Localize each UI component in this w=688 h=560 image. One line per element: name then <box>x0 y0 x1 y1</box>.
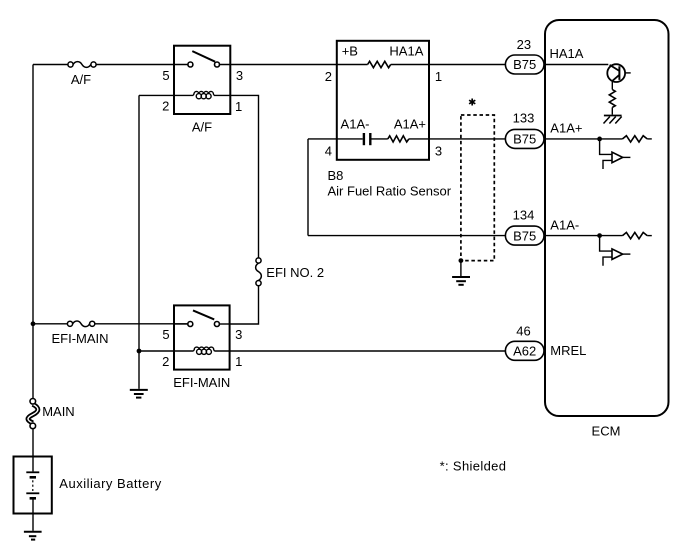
relay A/F switch contact circles <box>188 62 220 67</box>
ground shield <box>452 277 470 285</box>
svg-text:23: 23 <box>517 37 531 52</box>
wire top +B row: left bus to A/F fuse <box>33 64 68 66</box>
connector B75 pin 23 <box>505 55 544 74</box>
svg-text:2: 2 <box>162 354 169 369</box>
ECM box <box>545 20 669 416</box>
wire A/F relay pin 2 to vertical bus x139 <box>139 94 174 96</box>
relay A/F box <box>174 46 230 114</box>
svg-text:EFI-MAIN: EFI-MAIN <box>51 331 108 346</box>
svg-text:EFI NO. 2: EFI NO. 2 <box>266 265 324 280</box>
svg-text:HA1A: HA1A <box>389 44 423 59</box>
wire left bus to EFI-MAIN fuse <box>33 323 67 325</box>
wire HA1A row: relay pin 3 through sensor to heater resistor <box>219 64 367 66</box>
svg-text:133: 133 <box>513 110 535 125</box>
wire A1A- ECM resistor right lead <box>647 235 652 237</box>
op-amp A1A+ buffer <box>612 152 623 163</box>
wire A1A- vertical drop x308 <box>307 139 309 236</box>
transistor Q (ECM output driver) <box>607 64 630 89</box>
ground chassis (transistor emitter) <box>604 116 622 124</box>
wire HA1A row: sensor to B75(23) and into ECM to transistor <box>391 64 609 66</box>
op-amp A1A- buffer <box>612 249 623 260</box>
wire A1A+ ECM resistor right lead <box>647 138 652 140</box>
resistor heater inside sensor <box>368 61 391 67</box>
resistor A1A- inside ECM <box>623 232 648 238</box>
resistor sensing cell <box>388 136 409 142</box>
wire A1A+ op-amp lower input stub <box>603 160 612 169</box>
wire A1A+ op-amp upper input from node <box>600 139 612 155</box>
svg-text:134: 134 <box>513 208 535 223</box>
fuse EFI-MAIN <box>67 321 94 327</box>
svg-text:1: 1 <box>235 99 242 114</box>
shield dashed box <box>461 115 494 261</box>
fuse A/F <box>68 62 96 68</box>
sensor B8 box <box>337 41 429 160</box>
wire battery negative plate to ground <box>32 499 34 531</box>
svg-text:3: 3 <box>235 327 242 342</box>
svg-text:3: 3 <box>435 144 442 159</box>
connector B75 pin 134 <box>505 226 544 245</box>
svg-text:1: 1 <box>435 69 442 84</box>
svg-text:MREL: MREL <box>550 343 586 358</box>
svg-text:3: 3 <box>236 68 243 83</box>
battery plates <box>26 472 39 498</box>
wire A1A- op-amp lower input stub <box>603 257 612 266</box>
ground battery <box>24 532 42 540</box>
svg-text:5: 5 <box>162 68 169 83</box>
svg-text:4: 4 <box>325 144 332 159</box>
svg-text:B8: B8 <box>328 168 344 183</box>
svg-text:+B: +B <box>342 44 358 59</box>
battery Auxiliary Battery box <box>14 457 52 514</box>
wire A/F relay coil row right lead <box>214 94 230 96</box>
connector A62 pin 46 <box>505 341 544 360</box>
svg-text:2: 2 <box>325 69 332 84</box>
svg-text:A1A+: A1A+ <box>550 121 582 136</box>
wire vertical bus x139 from A/F relay pin2 down to ground <box>138 95 140 389</box>
wire shield drain to ground <box>460 261 462 277</box>
fusible link MAIN <box>28 399 38 429</box>
wire EFI-MAIN relay coil right lead / pin 1 to A62 MREL <box>214 350 544 352</box>
resistor A1A+ inside ECM <box>623 136 648 142</box>
svg-text:EFI-MAIN: EFI-MAIN <box>173 375 230 390</box>
svg-text:A/F: A/F <box>71 72 91 87</box>
svg-text:ECM: ECM <box>592 424 621 439</box>
svg-text:B75: B75 <box>513 57 536 72</box>
svg-text:5: 5 <box>162 327 169 342</box>
wire A1A+ row: sensor pin 3 to B75(133) into ECM <box>409 138 623 140</box>
svg-text:1: 1 <box>235 354 242 369</box>
svg-text:*: Shielded: *: Shielded <box>440 459 507 474</box>
relay EFI-MAIN coil <box>194 347 215 354</box>
wire EFI-MAIN relay switch left lead inside box <box>174 323 188 325</box>
svg-text:A1A+: A1A+ <box>394 117 426 132</box>
ground EFI-MAIN relay <box>130 390 148 398</box>
wire EFI-MAIN relay pin 2 from junction x139 <box>139 350 194 352</box>
svg-text:B75: B75 <box>513 228 536 243</box>
svg-text:Air Fuel Ratio Sensor: Air Fuel Ratio Sensor <box>328 183 452 198</box>
wire A1A+ row: sensor left edge to capacitor <box>337 138 363 140</box>
relay EFI-MAIN switch contact circles <box>188 322 220 327</box>
wire EFI-MAIN fuse to relay pin 5 <box>95 323 188 325</box>
node junction left bus / EFI-MAIN fuse <box>31 321 36 326</box>
wire A1A- op-amp upper input from node <box>600 236 612 252</box>
fuse EFI NO. 2 <box>256 258 262 286</box>
relay EFI-MAIN switch blade <box>193 310 214 319</box>
connector B75 pin 133 <box>505 129 544 148</box>
svg-text:B75: B75 <box>513 132 536 147</box>
svg-text:A62: A62 <box>513 344 536 359</box>
wire MAIN link to battery positive plate <box>32 429 34 472</box>
capacitor sensing cell <box>364 133 370 145</box>
wire left bus vertical from +B row down to MAIN link <box>32 65 34 399</box>
wire A1A+ row: capacitor to resistor <box>372 138 388 140</box>
svg-text:A/F: A/F <box>192 119 212 134</box>
wire A/F relay coil row left lead <box>174 94 193 96</box>
relay A/F coil <box>193 91 214 98</box>
wire A1A- op-amp output <box>623 253 631 255</box>
svg-text:A1A-: A1A- <box>550 217 579 232</box>
relay EFI-MAIN box <box>174 305 230 369</box>
asterisk marker above shield <box>469 99 475 106</box>
svg-text:46: 46 <box>516 323 530 338</box>
wire EFI-MAIN relay switch right lead inside box <box>219 323 229 325</box>
wire A/F fuse to relay switch <box>96 64 188 66</box>
node junction A1A+ ECM <box>597 137 602 142</box>
wire A1A+ op-amp output <box>623 156 631 158</box>
svg-text:Auxiliary Battery: Auxiliary Battery <box>59 476 161 491</box>
node junction shield drain <box>459 258 464 263</box>
wire A/F relay pin 1 to EFI NO.2 column <box>230 95 258 257</box>
svg-text:MAIN: MAIN <box>42 404 74 419</box>
svg-text:A1A-: A1A- <box>341 117 370 132</box>
node junction A1A- ECM <box>597 233 602 238</box>
node junction x139 / EFI-MAIN coil <box>137 349 142 354</box>
relay A/F switch blade <box>192 51 215 62</box>
wire sensor pin 4 lead going left <box>308 138 337 140</box>
svg-text:2: 2 <box>162 99 169 114</box>
resistor emitter (vertical) <box>609 90 615 108</box>
svg-text:HA1A: HA1A <box>550 46 584 61</box>
wire EFI NO.2 fuse bottom to EFI-MAIN relay pin 3 <box>230 286 259 324</box>
wire A1A- row to B75(134) into ECM <box>308 235 623 237</box>
wire emitter resistor to chassis ground <box>611 107 613 114</box>
